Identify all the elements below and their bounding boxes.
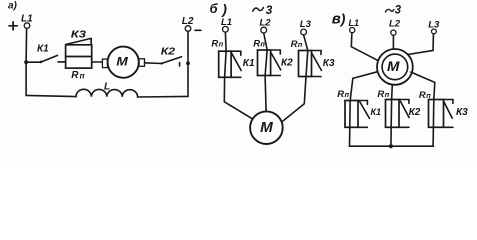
svg-text:R: R: [377, 89, 384, 100]
svg-text:п: п: [260, 40, 265, 49]
svg-text:R: R: [253, 38, 260, 49]
svg-text:К1: К1: [371, 107, 382, 117]
svg-text:3: 3: [395, 5, 402, 17]
svg-text:3: 3: [266, 3, 273, 17]
svg-text:п: п: [385, 90, 390, 99]
svg-text:L: L: [104, 82, 110, 93]
svg-text:М: М: [387, 59, 400, 74]
svg-text:R: R: [71, 70, 79, 81]
svg-text:в: в: [332, 11, 341, 28]
svg-text:п: п: [298, 40, 303, 49]
svg-text:L1: L1: [349, 18, 360, 28]
svg-text:R: R: [337, 89, 344, 100]
svg-text:п: п: [426, 91, 431, 100]
svg-text:К1: К1: [243, 58, 255, 69]
svg-text:L2: L2: [260, 17, 272, 28]
svg-text:L3: L3: [300, 19, 312, 30]
svg-text:К2: К2: [409, 107, 421, 118]
svg-text:R: R: [291, 39, 298, 50]
svg-text:К2: К2: [161, 45, 175, 57]
svg-text:R: R: [211, 38, 218, 49]
svg-text:): ): [339, 10, 346, 26]
svg-text:М: М: [260, 120, 274, 136]
svg-text:К3: К3: [323, 58, 335, 69]
svg-text:К1: К1: [37, 44, 49, 55]
svg-text:L1: L1: [21, 13, 33, 24]
svg-text:L2: L2: [389, 19, 401, 30]
svg-text:б: б: [210, 1, 219, 16]
svg-text:М: М: [116, 54, 129, 68]
svg-text:К3: К3: [71, 30, 87, 41]
svg-text:К2: К2: [281, 58, 293, 69]
svg-text:R: R: [419, 90, 426, 101]
svg-text:L1: L1: [221, 17, 232, 28]
svg-text:п: п: [219, 40, 224, 49]
svg-text:п: п: [80, 71, 85, 80]
svg-text:а): а): [8, 1, 18, 12]
svg-text:п: п: [345, 90, 350, 99]
svg-text:К3: К3: [456, 107, 468, 118]
svg-text:L3: L3: [428, 20, 440, 31]
svg-text:L2: L2: [182, 16, 194, 27]
svg-text:): ): [220, 1, 227, 17]
